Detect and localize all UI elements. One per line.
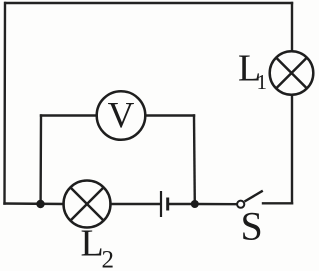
wire voltmeter branch left vertical [39, 116, 42, 205]
svg-text:S: S [241, 204, 263, 249]
switch S [237, 191, 263, 208]
svg-text:2: 2 [102, 247, 115, 271]
svg-text:1: 1 [257, 70, 268, 94]
wire bottom-left segment [5, 202, 64, 205]
wire battery to node B [169, 203, 196, 205]
lamp L2 [64, 181, 111, 228]
svg-text:L: L [81, 223, 104, 265]
node A junction dot [36, 200, 44, 208]
wire L2 to battery [111, 203, 161, 205]
wire right lower [291, 95, 293, 203]
wire voltmeter branch right vertical [193, 116, 196, 205]
voltmeter U1 [97, 91, 146, 140]
wire left [3, 3, 6, 204]
battery B1 [161, 191, 168, 217]
wire top [6, 2, 293, 4]
svg-text:V: V [108, 96, 135, 137]
node B junction dot [191, 200, 199, 208]
wire voltmeter branch right horizontal [146, 114, 195, 116]
lamp L1 [270, 51, 314, 95]
wire voltmeter branch left horizontal [41, 114, 97, 116]
wire node B to switch [195, 203, 237, 206]
wire right upper [291, 3, 293, 51]
wire switch to bottom-right corner [263, 202, 292, 204]
